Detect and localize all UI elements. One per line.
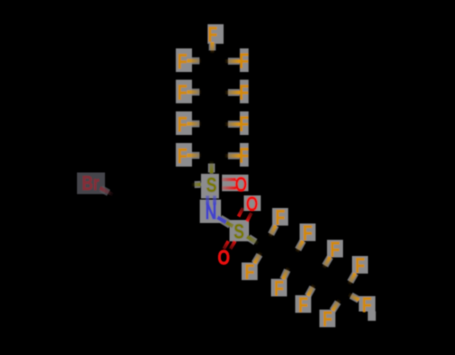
- atom O (sulfonyl upper oxygen): [244, 192, 261, 216]
- svg-text:F: F: [245, 260, 255, 284]
- svg-text:F: F: [355, 253, 365, 277]
- bond C3-F(left) stub: [187, 120, 202, 127]
- svg-text:F: F: [239, 49, 249, 73]
- svg-text:F: F: [362, 293, 372, 317]
- svg-text:F: F: [239, 112, 249, 136]
- atom F (right of C1): [239, 48, 249, 72]
- svg-text:F: F: [177, 49, 187, 73]
- atom O (sulfonyl lower oxygen): [218, 245, 230, 269]
- atom N (sulfoximine imide nitrogen): [200, 200, 221, 224]
- bond S2=O (lower) double bond: [224, 241, 235, 249]
- atom F (right of C4): [239, 143, 249, 167]
- atom S2 (sulfonyl sulfur): [230, 219, 250, 243]
- svg-text:F: F: [275, 205, 285, 229]
- svg-text:F: F: [298, 293, 308, 317]
- atom F (above C5): [272, 205, 288, 229]
- svg-text:F: F: [177, 112, 187, 136]
- bond Br-phenyl ipso carbon stub: [100, 188, 114, 195]
- atom F (below C6): [271, 276, 287, 300]
- atom F (left of C1): [176, 48, 192, 72]
- atom F (above C6): [300, 221, 316, 245]
- bond S2-C5 stub: [247, 237, 259, 244]
- svg-text:S: S: [206, 173, 217, 197]
- atom F (left of C4): [176, 143, 192, 167]
- bond C8-F(above) stub: [349, 273, 355, 284]
- bond S2=O (upper) double bond: [239, 208, 252, 221]
- svg-text:O: O: [246, 192, 258, 216]
- svg-text:Br: Br: [82, 172, 99, 194]
- bond C1-F(right) stub: [225, 58, 241, 65]
- bond C3-F(right) stub: [225, 121, 241, 128]
- bond C6-F(below) stub: [283, 267, 288, 279]
- atom F (above C7): [327, 237, 343, 261]
- bond C7-F(below) stub: [308, 285, 314, 296]
- bond C6-F(above) stub: [297, 241, 303, 252]
- svg-text:F: F: [177, 144, 187, 168]
- atom F (below C5): [242, 260, 258, 284]
- atom F (left of C2): [176, 80, 192, 104]
- atom F (below C8): [319, 307, 335, 331]
- bond C2-F(left) stub: [187, 89, 202, 96]
- atom Br (bromine on phenyl ring): [77, 172, 105, 194]
- bond C4-F(right) stub: [225, 152, 241, 159]
- bond C1-F(left) stub: [187, 57, 202, 64]
- atom F (right of C2): [239, 80, 249, 104]
- atom F (left of C3): [176, 111, 192, 135]
- bond C7-F(above) stub: [323, 257, 330, 268]
- svg-text:F: F: [274, 276, 284, 300]
- atom F (top CF3 fluorine): [208, 22, 224, 46]
- svg-text:F: F: [177, 80, 187, 104]
- bond C4-F(left) stub: [187, 152, 202, 159]
- svg-text:F: F: [239, 143, 249, 167]
- atom S1 (sulfoximine sulfur): [201, 173, 219, 199]
- bond S1-phenyl ipso carbon stub (left): [192, 181, 202, 188]
- atom F (right of C3): [239, 111, 249, 135]
- bond C8-F(below) stub: [333, 300, 340, 311]
- bond C8-F(terminal) stub: [348, 294, 359, 300]
- bond S1-C4 stub (up): [208, 161, 215, 174]
- svg-text:F: F: [303, 221, 313, 245]
- bond N-S2: [218, 217, 234, 226]
- atom F (below C7): [295, 293, 311, 317]
- atom O (sulfoximine oxygen): [222, 172, 248, 196]
- bond S1=O double bond: [222, 180, 237, 189]
- svg-text:F: F: [239, 80, 249, 104]
- bond C2-F(right) stub: [225, 89, 241, 96]
- bond C5-F(above) stub: [270, 225, 276, 236]
- bond C1-F(top) stub: [209, 42, 216, 54]
- atom F (above C8): [352, 253, 368, 277]
- svg-text:S: S: [234, 219, 245, 243]
- svg-text:F: F: [330, 237, 340, 261]
- bond S1=N double bond: [208, 196, 215, 205]
- bond C5-F(below) stub: [254, 252, 261, 263]
- svg-text:F: F: [323, 307, 333, 331]
- atom F (terminal CF3 fluorine): [359, 293, 376, 321]
